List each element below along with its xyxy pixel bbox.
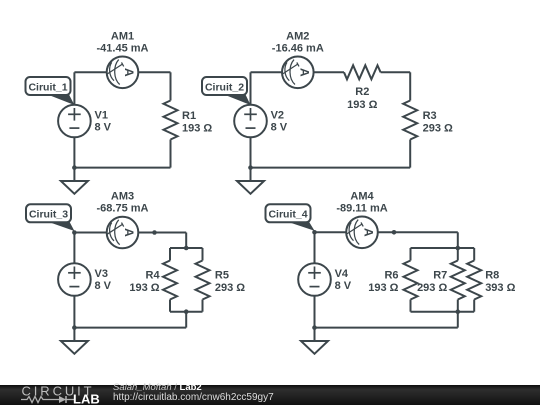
wire c3 R5 upper (202, 248, 204, 261)
wire c1 right lower (170, 140, 172, 168)
CircuitLab logo (0, 385, 110, 405)
svg-text:AM2: AM2 (286, 30, 309, 42)
svg-text:-41.45 mA: -41.45 mA (97, 42, 149, 54)
wire c2 left lower (250, 137, 252, 167)
svg-text:193 Ω: 193 Ω (129, 282, 159, 294)
footer author line (113, 383, 202, 393)
wire c4 left lower (314, 296, 316, 328)
wire c3 left lower (73, 296, 75, 328)
wire c1 left upper (73, 72, 75, 104)
ground GND c3 (61, 328, 88, 354)
wire c1 top right (138, 71, 170, 73)
logo resistor squiggle (21, 397, 74, 403)
svg-text:A: A (362, 228, 376, 237)
ammeter AM2 (282, 57, 314, 89)
svg-text:R2: R2 (355, 86, 369, 98)
svg-text:R3: R3 (423, 110, 437, 122)
junction c3 flag node (72, 230, 77, 235)
voltage source V3 (58, 263, 91, 296)
logo diode (59, 396, 66, 403)
svg-text:A: A (298, 68, 312, 77)
wire c3 drop (185, 233, 187, 249)
svg-text:R4: R4 (146, 270, 161, 282)
wire c2 top mid (314, 71, 344, 73)
ground GND c1 (61, 168, 88, 194)
junction c1 gnd node (72, 165, 77, 170)
resistor R8 (467, 261, 481, 300)
svg-text:8 V: 8 V (95, 122, 112, 134)
resistor R2 (344, 65, 381, 79)
svg-text:V4: V4 (335, 268, 349, 280)
svg-text:AM3: AM3 (111, 191, 134, 203)
wire c2 top left (251, 71, 283, 73)
wire c4 par top bar (411, 247, 475, 249)
svg-text:R7: R7 (433, 270, 447, 282)
svg-text:V3: V3 (95, 268, 108, 280)
wire c4 drop (457, 232, 459, 248)
svg-text:293 Ω: 293 Ω (423, 122, 453, 134)
resistor R1 (164, 101, 178, 140)
footer bar (0, 385, 540, 405)
wire c3 par top bar (170, 247, 203, 249)
wire c3 par bottom bar (170, 311, 203, 313)
svg-text:193 Ω: 193 Ω (347, 99, 377, 111)
svg-text:8 V: 8 V (95, 280, 112, 292)
node flag Ciruit_4 (266, 204, 315, 231)
resistor R7 (451, 261, 465, 300)
wire c4 top left (315, 231, 347, 233)
voltage source V4 (298, 263, 331, 296)
svg-text:8 V: 8 V (271, 122, 288, 134)
svg-text:V1: V1 (95, 109, 108, 121)
ammeter AM1 (107, 57, 139, 89)
junction c2 gnd node (248, 165, 253, 170)
wire c3 bottom (74, 327, 186, 329)
svg-text:AM1: AM1 (111, 30, 134, 42)
resistor R3 (403, 101, 417, 140)
wire c3 top left (74, 232, 106, 234)
junction c4 par top (456, 246, 461, 251)
svg-text:-89.11 mA: -89.11 mA (336, 203, 387, 215)
wire c2 left upper (250, 72, 252, 104)
junction c4 par bottom (456, 309, 461, 314)
junction c3 gnd node (72, 325, 77, 330)
wire c4 R8 lower (473, 300, 475, 312)
resistor R6 (404, 261, 418, 300)
voltage source V2 (234, 105, 267, 138)
svg-text:393 Ω: 393 Ω (485, 282, 515, 294)
ammeter AM3 (107, 217, 139, 249)
wire c2 right lower (409, 140, 411, 168)
svg-text:LAB: LAB (73, 392, 100, 405)
svg-text:293 Ω: 293 Ω (215, 282, 245, 294)
wire c3 drop2 (185, 312, 187, 328)
junction c4 flag node (312, 230, 317, 235)
wire c4 R7 upper (457, 248, 459, 261)
voltage source V1 (58, 105, 91, 138)
wire c3 R4 lower (169, 300, 171, 312)
wire c4 drop2 (457, 312, 459, 328)
wire c3 top right (138, 232, 186, 234)
wire c4 R6 upper (410, 248, 412, 261)
wire c1 bottom (74, 167, 170, 169)
junction c4 gnd node (312, 325, 317, 330)
junction c4 mid (392, 230, 397, 235)
wire c4 par bottom bar (411, 311, 475, 313)
svg-text:8 V: 8 V (335, 280, 352, 292)
svg-text:Ciruit_3: Ciruit_3 (29, 209, 68, 221)
svg-text:R6: R6 (384, 270, 398, 282)
svg-text:-68.75 mA: -68.75 mA (97, 203, 149, 215)
svg-text:A: A (122, 68, 136, 77)
svg-text:193 Ω: 193 Ω (368, 282, 398, 294)
svg-text:R8: R8 (485, 270, 499, 282)
svg-text:A: A (122, 228, 136, 237)
wire c4 top right (378, 231, 458, 233)
wire c1 left lower (73, 137, 75, 167)
svg-text:Ciruit_1: Ciruit_1 (28, 81, 67, 93)
junction c3 mid (152, 230, 157, 235)
wire c4 left upper (314, 232, 316, 263)
wire c3 left upper (73, 233, 75, 264)
wire c2 bottom (251, 167, 411, 169)
wire c4 R6 lower (410, 300, 412, 312)
ground GND c4 (301, 328, 328, 354)
wire c2 top right (381, 71, 411, 73)
footer url line (113, 393, 274, 403)
node flag Ciruit_3 (26, 204, 74, 231)
svg-text:293 Ω: 293 Ω (417, 282, 447, 294)
wire c3 R5 lower (202, 300, 204, 312)
node flag Ciruit_1 (26, 77, 75, 105)
svg-text:R5: R5 (215, 270, 229, 282)
wire c4 R7 lower (457, 300, 459, 312)
wire c1 top left (74, 71, 106, 73)
junction c3 par bottom (184, 309, 189, 314)
wire c4 bottom (315, 327, 458, 329)
svg-text:193 Ω: 193 Ω (182, 122, 212, 134)
wire c4 R8 upper (473, 248, 475, 261)
ground GND c2 (237, 168, 264, 194)
resistor R5 (196, 261, 210, 300)
wire c2 right upper (409, 72, 411, 100)
junction c3 par top (184, 246, 189, 251)
svg-text:Ciruit_4: Ciruit_4 (268, 209, 307, 221)
svg-text:AM4: AM4 (350, 191, 374, 203)
svg-text:R1: R1 (182, 110, 196, 122)
wire c1 right upper (170, 72, 172, 100)
svg-text:-16.46 mA: -16.46 mA (272, 42, 324, 54)
node flag Ciruit_2 (202, 77, 251, 105)
resistor R4 (163, 261, 177, 300)
wire c3 R4 upper (169, 248, 171, 261)
svg-text:Ciruit_2: Ciruit_2 (205, 81, 244, 93)
svg-text:V2: V2 (271, 109, 284, 121)
ammeter AM4 (346, 217, 378, 249)
